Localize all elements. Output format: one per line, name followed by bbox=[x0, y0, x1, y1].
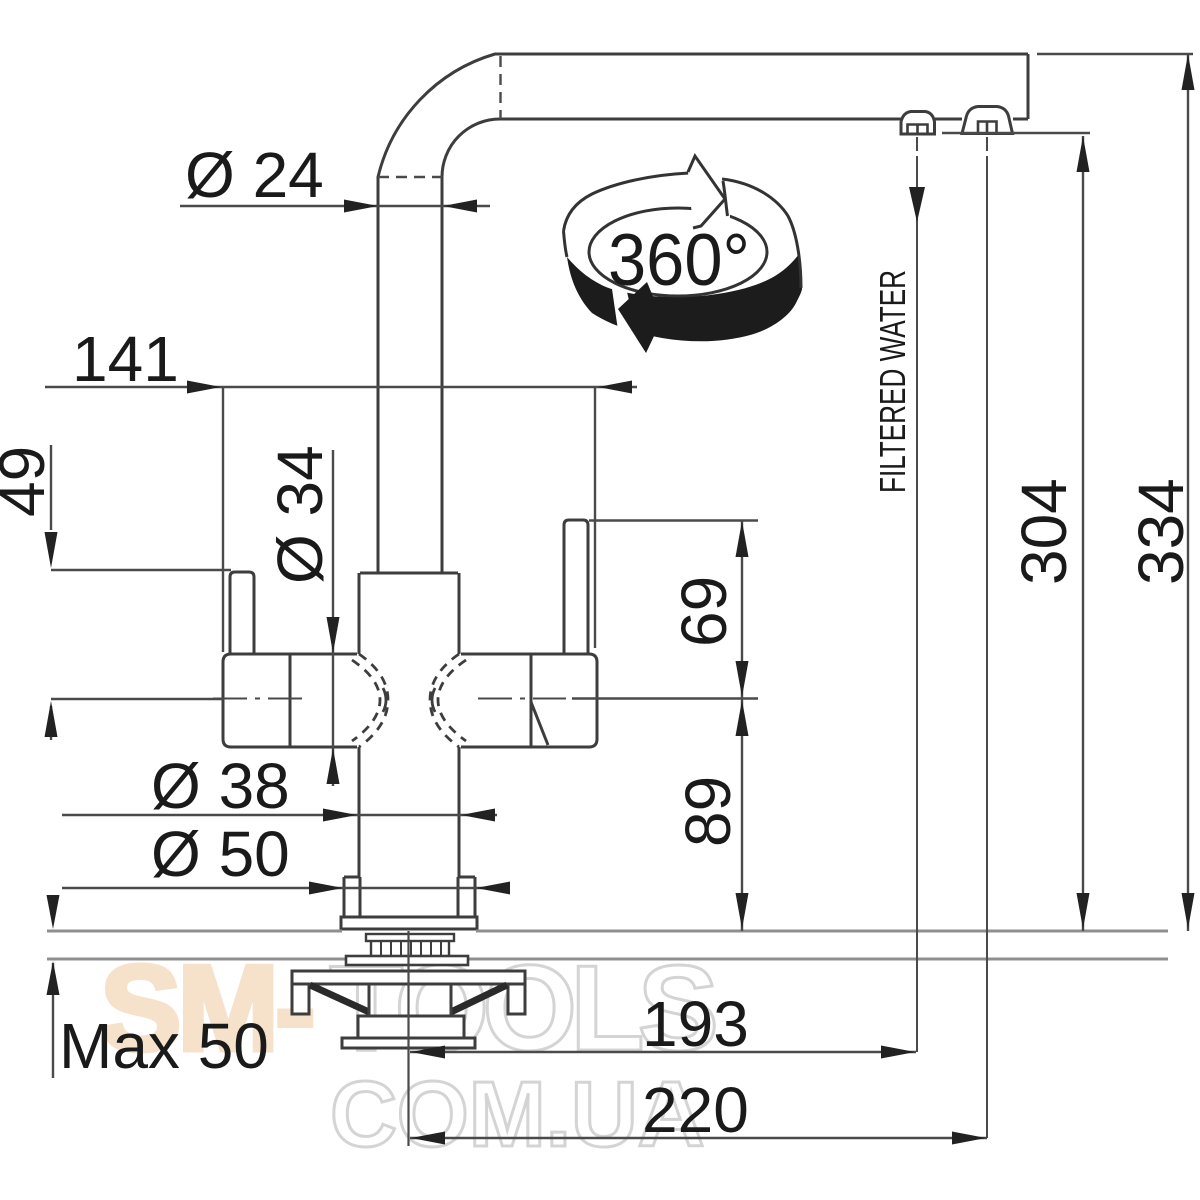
dim Max 50 arrows bbox=[52, 963, 54, 1078]
dim 220 text bbox=[642, 1074, 749, 1146]
watermark TOOLS bbox=[329, 940, 715, 1076]
dim Ø34 text bbox=[264, 445, 336, 584]
spout outer contour bbox=[378, 54, 1028, 573]
360 symbol white gap bbox=[612, 289, 638, 344]
mounting bracket bbox=[292, 971, 525, 1014]
filtered water outlet bbox=[901, 112, 935, 135]
mounting nut bbox=[342, 1016, 475, 1048]
dim Ø38 arrows bbox=[323, 809, 495, 822]
outlet bottom extension line bbox=[942, 132, 1090, 134]
dim 334 line bbox=[1187, 54, 1189, 931]
dim 49 text bbox=[0, 446, 58, 517]
filtered water text bbox=[872, 270, 913, 493]
dim Ø50 text bbox=[151, 818, 290, 890]
dim 69 reference line bbox=[589, 519, 758, 521]
filtered water centerline bbox=[916, 137, 918, 1052]
dim 193 arrows bbox=[411, 1046, 915, 1059]
bracket wedges bbox=[310, 985, 507, 1012]
dim 69 text bbox=[668, 576, 740, 647]
dim 141 line bbox=[45, 386, 637, 388]
svg-text:141: 141 bbox=[72, 323, 179, 395]
dim 334 arrows bbox=[1182, 54, 1195, 929]
dim 69 arrows bbox=[736, 521, 749, 697]
left handle body bbox=[223, 654, 357, 747]
dim 304 arrows bbox=[1077, 136, 1090, 929]
dim 89 arrows bbox=[736, 700, 749, 929]
faucet vertical centerline bbox=[407, 931, 409, 1146]
svg-text:Ø 50: Ø 50 bbox=[151, 818, 290, 890]
svg-text:360°: 360° bbox=[608, 220, 750, 301]
svg-text:220: 220 bbox=[642, 1074, 749, 1146]
dim 141 text bbox=[72, 323, 179, 395]
svg-text:69: 69 bbox=[668, 576, 740, 647]
svg-text:FILTERED WATER: FILTERED WATER bbox=[872, 270, 913, 493]
spout right end bbox=[1027, 54, 1030, 119]
right handle lever bbox=[564, 520, 588, 654]
bend tangent dashed lines bbox=[378, 56, 501, 177]
dim 193 line bbox=[410, 1051, 916, 1053]
360 text bbox=[608, 220, 750, 301]
base ring bbox=[344, 877, 475, 917]
dim 334 text bbox=[1125, 478, 1197, 585]
svg-text:Max 50: Max 50 bbox=[59, 1010, 269, 1082]
right handle centerline bbox=[478, 698, 566, 700]
svg-text:89: 89 bbox=[672, 776, 744, 847]
360 symbol hidden-edge cover bbox=[692, 204, 730, 230]
svg-text:334: 334 bbox=[1125, 478, 1197, 585]
body waist right dashed curves bbox=[430, 654, 466, 747]
dim Ø24 line bbox=[180, 205, 490, 207]
dim Ø38 line bbox=[62, 814, 497, 816]
base flange plate bbox=[341, 917, 477, 929]
countertop top line bbox=[47, 930, 1168, 933]
svg-text:304: 304 bbox=[1008, 478, 1080, 585]
left handle centerline bbox=[213, 698, 305, 700]
countertop bottom line bbox=[47, 958, 1168, 961]
svg-text:193: 193 bbox=[642, 988, 749, 1060]
dim 193 text bbox=[642, 988, 749, 1060]
dim 69-89 vertical line bbox=[741, 521, 743, 931]
body shoulder bbox=[360, 572, 458, 575]
main outlet bbox=[962, 107, 1013, 134]
threaded shank bbox=[366, 934, 454, 958]
dim Max 50 text bbox=[59, 1010, 269, 1082]
washer bar bbox=[346, 956, 468, 965]
filtered water arrow bbox=[909, 187, 925, 222]
right handle body bbox=[461, 654, 597, 747]
dim 220 line bbox=[410, 1137, 987, 1139]
360 symbol black band bbox=[567, 254, 802, 341]
dim 141 arrows bbox=[187, 381, 632, 394]
top extension line bbox=[1037, 53, 1193, 55]
360 symbol inner hole bbox=[589, 208, 767, 296]
svg-text:Ø 34: Ø 34 bbox=[264, 445, 336, 584]
body waist left dashed curves bbox=[352, 654, 388, 747]
360 symbol outer edges bbox=[564, 173, 802, 288]
main outlet centerline bbox=[986, 137, 988, 1138]
dim 69-89 middle reference line bbox=[572, 697, 758, 699]
dim Ø34 line and arrows bbox=[332, 450, 334, 786]
360 symbol open arrow bbox=[688, 156, 728, 228]
svg-text:49: 49 bbox=[0, 446, 58, 517]
body lower section bbox=[359, 747, 459, 877]
watermark SM- bbox=[100, 940, 312, 1076]
dim Ø50 line bbox=[62, 887, 508, 889]
left handle lever bbox=[230, 572, 254, 654]
svg-text:Ø 24: Ø 24 bbox=[185, 139, 324, 211]
svg-text:Ø 38: Ø 38 bbox=[151, 750, 290, 822]
spout inner contour bbox=[442, 119, 1028, 573]
dim Ø50 arrows bbox=[309, 882, 510, 895]
dim Ø24 text bbox=[185, 139, 324, 211]
dim Ø38 text bbox=[151, 750, 290, 822]
dim Ø24 arrows bbox=[344, 200, 477, 213]
dim 141 extension lines bbox=[223, 388, 595, 652]
dim 304 text bbox=[1008, 478, 1080, 585]
dim 89 text bbox=[672, 776, 744, 847]
dim 304 line bbox=[1082, 136, 1084, 931]
watermark COM.UA bbox=[330, 1062, 704, 1166]
body upper section bbox=[359, 573, 459, 654]
dim 49 line and arrows bbox=[50, 445, 52, 740]
360 symbol black arrow bbox=[618, 282, 655, 353]
dim 49 reference lines bbox=[51, 570, 231, 699]
dim 220 arrows bbox=[411, 1132, 986, 1145]
bracket inner sides bbox=[369, 984, 451, 1016]
